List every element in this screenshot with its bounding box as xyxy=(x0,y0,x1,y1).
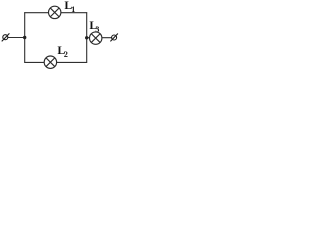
wire top (node A to node B) xyxy=(25,12,87,14)
wire right vertical xyxy=(86,13,88,63)
lamp L1 xyxy=(49,6,61,18)
svg-text:2: 2 xyxy=(64,50,68,59)
lamp L2 xyxy=(44,56,56,68)
lamp L3 xyxy=(90,32,102,44)
left terminal xyxy=(2,33,10,41)
wire bottom xyxy=(25,61,87,63)
label L1 xyxy=(64,0,75,14)
label L2 xyxy=(57,43,68,59)
right terminal xyxy=(110,34,118,42)
wire node B to right terminal xyxy=(87,37,112,39)
svg-text:3: 3 xyxy=(95,25,99,34)
wire left terminal to node A xyxy=(7,37,25,39)
label L3 xyxy=(89,18,99,34)
svg-text:1: 1 xyxy=(71,5,75,14)
node B junction dot xyxy=(85,36,88,39)
node A junction dot xyxy=(23,36,26,39)
wire left vertical xyxy=(24,13,26,63)
